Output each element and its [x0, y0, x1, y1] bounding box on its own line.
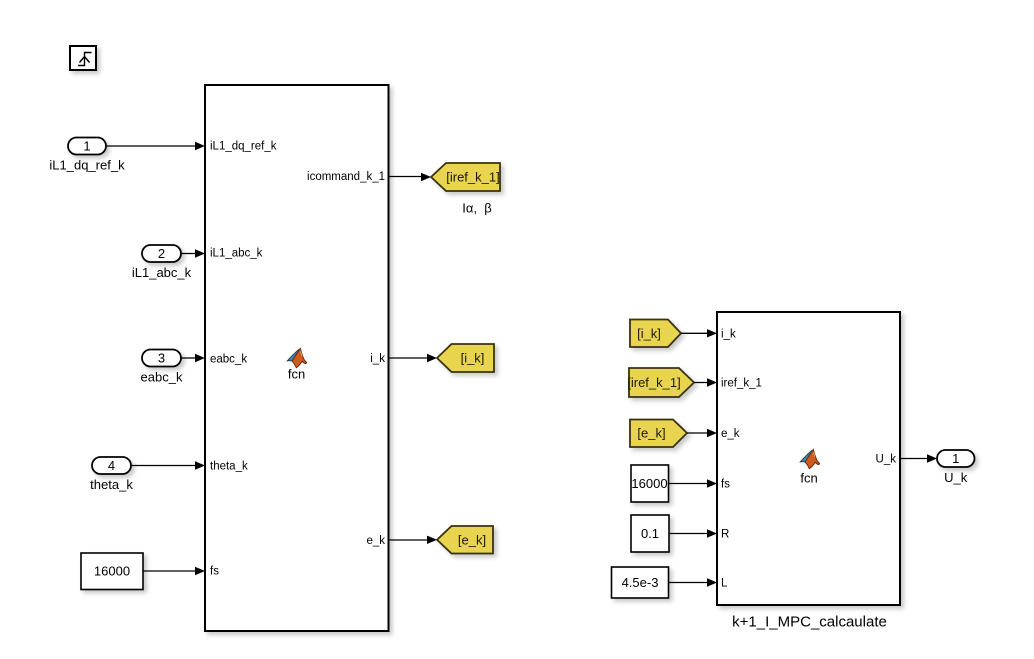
svg-text:[iref_k_1]: [iref_k_1]	[446, 170, 499, 185]
svg-text:L: L	[721, 578, 728, 590]
svg-text:iL1_abc_k: iL1_abc_k	[132, 265, 192, 280]
svg-text:0.1: 0.1	[641, 526, 659, 541]
svg-text:fcn: fcn	[288, 367, 305, 382]
svg-text:U_k: U_k	[944, 470, 968, 485]
svg-text:k+1_I_MPC_calcaulate: k+1_I_MPC_calcaulate	[732, 614, 887, 631]
svg-text:fcn: fcn	[800, 471, 817, 486]
svg-text:[i_k]: [i_k]	[637, 326, 661, 341]
svg-text:[e_k]: [e_k]	[458, 532, 486, 547]
svg-text:i_k: i_k	[370, 353, 385, 365]
svg-text:1: 1	[83, 139, 90, 154]
svg-text:2: 2	[158, 246, 165, 261]
svg-text:fs: fs	[210, 566, 219, 578]
svg-text:i_k: i_k	[721, 328, 736, 340]
svg-text:iL1_dq_ref_k: iL1_dq_ref_k	[49, 158, 125, 173]
svg-text:e_k: e_k	[366, 535, 385, 547]
svg-text:4.5e-3: 4.5e-3	[622, 575, 659, 590]
svg-text:R: R	[721, 529, 729, 541]
svg-text:16000: 16000	[631, 476, 667, 491]
svg-text:iL1_dq_ref_k: iL1_dq_ref_k	[210, 141, 277, 153]
svg-text:U_k: U_k	[876, 453, 897, 465]
svg-text:4: 4	[108, 458, 115, 473]
svg-text:[iref_k_1]: [iref_k_1]	[627, 375, 680, 390]
svg-text:icommand_k_1: icommand_k_1	[307, 171, 385, 183]
svg-text:[i_k]: [i_k]	[461, 351, 485, 366]
svg-text:fs: fs	[721, 479, 730, 491]
svg-text:1: 1	[952, 451, 959, 466]
svg-text:eabc_k: eabc_k	[141, 370, 183, 385]
svg-text:iref_k_1: iref_k_1	[721, 378, 762, 390]
svg-text:Iα, β: Iα, β	[462, 201, 491, 216]
svg-text:theta_k: theta_k	[90, 477, 133, 492]
svg-text:iL1_abc_k: iL1_abc_k	[210, 248, 263, 260]
svg-text:3: 3	[158, 351, 165, 366]
svg-text:theta_k: theta_k	[210, 461, 248, 473]
svg-text:e_k: e_k	[721, 428, 740, 440]
svg-text:16000: 16000	[94, 564, 130, 579]
svg-text:eabc_k: eabc_k	[210, 354, 247, 366]
svg-text:[e_k]: [e_k]	[637, 426, 665, 441]
